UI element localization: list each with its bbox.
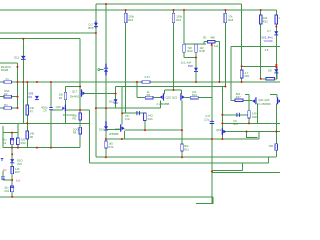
resistor R14 bbox=[144, 113, 147, 121]
wire Q18 emitter bbox=[124, 131, 126, 139]
wire R1 left stub bbox=[204, 42, 208, 45]
wire y171 bbox=[212, 163, 242, 170]
svg-text:3V9: 3V9 bbox=[28, 92, 33, 96]
resistor R25 bbox=[275, 15, 278, 24]
wire col x144 R14 bbox=[144, 120, 146, 130]
svg-text:0.47: 0.47 bbox=[145, 75, 151, 79]
wire output y172 bbox=[212, 171, 280, 173]
resistor R15 bbox=[124, 13, 127, 22]
svg-text:3V9: 3V9 bbox=[17, 162, 22, 166]
wire Q23 stub bbox=[276, 95, 278, 98]
svg-text:Jn1: Jn1 bbox=[16, 178, 21, 182]
node x12 y154 bbox=[11, 153, 13, 155]
wire y132 bbox=[3, 132, 18, 134]
node x105 y157 bbox=[105, 156, 107, 158]
transistor Q22 bbox=[180, 93, 181, 100]
svg-text:150: 150 bbox=[269, 144, 274, 148]
wire Q21 emitter bbox=[257, 104, 259, 124]
wire stub y137 bbox=[247, 132, 258, 138]
capacitor C8 bbox=[137, 111, 140, 115]
svg-text:4k8: 4k8 bbox=[210, 36, 215, 40]
wire y139 bbox=[106, 138, 259, 140]
wire y114 C6 bbox=[222, 114, 248, 116]
resistor R19b bbox=[195, 44, 198, 52]
svg-text:D9: D9 bbox=[28, 95, 32, 99]
y147 nodes bbox=[11, 147, 13, 149]
wire col x89 bbox=[88, 110, 90, 163]
node x196 y57 bbox=[195, 57, 197, 59]
node x222 y139 bbox=[221, 138, 223, 140]
svg-text:D13: D13 bbox=[99, 128, 104, 132]
svg-text:R15: R15 bbox=[128, 18, 133, 22]
resistor R26 bbox=[142, 81, 150, 84]
wire AC col bbox=[2, 126, 4, 180]
diode D11 bbox=[95, 21, 97, 28]
svg-text:2N44O4: 2N44O4 bbox=[1, 65, 12, 69]
svg-text:R20: R20 bbox=[252, 115, 257, 119]
resistor R27 bbox=[266, 78, 275, 81]
svg-text:220: 220 bbox=[21, 138, 26, 142]
wire D13 to Q18 base bbox=[106, 129, 120, 131]
svg-text:4.8: 4.8 bbox=[265, 48, 269, 52]
wire col x219 input bbox=[219, 42, 221, 82]
resistor R24 bbox=[275, 144, 278, 150]
svg-text:100: 100 bbox=[263, 16, 268, 20]
wire y130 bbox=[125, 129, 182, 131]
wire input y41 bbox=[215, 41, 220, 43]
diode D19 bbox=[194, 68, 198, 71]
svg-text:R17: R17 bbox=[236, 95, 241, 99]
svg-text:(2 x BD846: (2 x BD846 bbox=[257, 102, 271, 106]
svg-text:2x1_4uF: 2x1_4uF bbox=[181, 60, 192, 64]
capacitor C17 bbox=[210, 121, 215, 123]
wire y113 C8 bbox=[122, 112, 145, 114]
resistor R8 bbox=[79, 127, 82, 134]
svg-text:C9: C9 bbox=[43, 109, 47, 113]
wire y97 R9 bbox=[137, 97, 160, 99]
wire col x196 bbox=[195, 44, 197, 82]
wire y97 R13 bbox=[185, 97, 212, 99]
resistor R2 bbox=[4, 95, 12, 98]
wire y78 zener return bbox=[261, 66, 277, 79]
node x95 y33 bbox=[95, 32, 97, 34]
node x222 y114 bbox=[221, 114, 223, 116]
wire col x125 bbox=[125, 10, 127, 113]
svg-text:Jn2: Jn2 bbox=[214, 44, 219, 48]
wire rail y10 bbox=[0, 9, 276, 11]
wire col x65 R4 bbox=[64, 87, 66, 124]
node x211 y171 bbox=[211, 171, 213, 173]
wire col x50 bbox=[50, 82, 52, 148]
node x173 y90 bbox=[173, 89, 175, 91]
svg-text:Q2O Q22: Q2O Q22 bbox=[166, 96, 178, 100]
node x144 y130 bbox=[144, 129, 146, 131]
node x121 y139 bbox=[121, 138, 123, 140]
node x95 y108 bbox=[95, 107, 97, 109]
wire y123 right bbox=[222, 122, 280, 124]
svg-text:R1: R1 bbox=[203, 36, 207, 40]
wire y162 bbox=[89, 157, 268, 163]
node x106 y4 bbox=[105, 3, 107, 5]
wire y131 output bbox=[226, 131, 280, 133]
wire y57 bbox=[184, 57, 196, 59]
svg-text:R7: R7 bbox=[30, 109, 34, 113]
svg-text:R5: R5 bbox=[73, 117, 77, 121]
resistor R18 bbox=[224, 13, 227, 22]
node x12 y180 bbox=[11, 179, 13, 181]
diode D20 bbox=[274, 31, 278, 34]
diode D8 bbox=[274, 69, 278, 72]
svg-text:R2: R2 bbox=[4, 92, 8, 96]
node x249 y123 bbox=[248, 122, 250, 124]
node x260 y10 bbox=[260, 9, 262, 11]
svg-text:1On: 1On bbox=[125, 117, 131, 121]
svg-text:R3: R3 bbox=[4, 103, 8, 107]
wire Q20 collector bbox=[164, 90, 166, 94]
node x17 y96 bbox=[17, 96, 19, 98]
svg-text:2N4401: 2N4401 bbox=[70, 95, 80, 99]
wire col x276 upper bbox=[275, 10, 277, 79]
wire y108 row bbox=[0, 107, 18, 109]
node x260 y78 bbox=[260, 78, 262, 80]
node x241 y66 bbox=[241, 65, 243, 67]
wire input y44 bbox=[184, 43, 206, 45]
diode D9 bbox=[35, 96, 39, 99]
svg-text:Q21 Q23: Q21 Q23 bbox=[259, 98, 270, 102]
svg-text:10u: 10u bbox=[4, 185, 9, 189]
svg-text:AC: AC bbox=[3, 168, 7, 172]
wire col x27 bbox=[26, 82, 28, 148]
node x225 y10 bbox=[224, 9, 226, 11]
wire col x106 bbox=[105, 4, 107, 157]
node x27 y123 bbox=[26, 122, 28, 124]
svg-text:4.7: 4.7 bbox=[245, 71, 249, 75]
svg-text:R18: R18 bbox=[228, 18, 233, 22]
svg-text:140: 140 bbox=[252, 111, 257, 115]
node x222 y123 bbox=[221, 122, 223, 124]
node x12 y196 bbox=[11, 196, 13, 198]
svg-text:R11: R11 bbox=[184, 148, 189, 152]
svg-text:24k: 24k bbox=[30, 106, 35, 110]
node x184 y10 bbox=[183, 9, 185, 11]
svg-text:C8: C8 bbox=[125, 114, 129, 118]
svg-text:RO2B: RO2B bbox=[1, 68, 9, 72]
resistor R22 bbox=[259, 15, 262, 24]
resistor R7 bbox=[26, 105, 29, 115]
svg-text:Q16: Q16 bbox=[56, 105, 62, 109]
svg-text:Q17: Q17 bbox=[72, 90, 78, 94]
resistor R19a bbox=[183, 44, 186, 52]
capacitor C10 bbox=[11, 186, 14, 192]
node x11 y132 bbox=[11, 132, 13, 134]
diode D14 bbox=[98, 69, 100, 71]
wire col x95 bbox=[95, 4, 97, 157]
capacitor C9 bbox=[49, 108, 53, 110]
resistor R16 bbox=[172, 13, 175, 22]
wire mid rail y82 bbox=[0, 81, 280, 83]
wire col x241 R21 bbox=[241, 4, 243, 82]
transistor Q19 bbox=[222, 128, 223, 135]
resistor R1 input bbox=[208, 41, 215, 44]
wire y123 left bbox=[0, 122, 89, 124]
svg-text:BV8: BV8 bbox=[88, 26, 94, 30]
diode D10 bbox=[10, 159, 14, 162]
svg-text:120k: 120k bbox=[128, 15, 134, 19]
diode D15 bbox=[114, 99, 118, 102]
svg-text:2 x BD88B: 2 x BD88B bbox=[157, 102, 170, 106]
resistor R5 bbox=[79, 113, 82, 120]
wire col x23 D12 bbox=[22, 39, 24, 124]
resistor R20 bbox=[248, 111, 251, 118]
svg-text:D8: D8 bbox=[268, 68, 272, 72]
wire col x222 bbox=[221, 87, 223, 140]
node x246 y131 bbox=[246, 131, 248, 133]
rail y82 nodes bbox=[17, 81, 19, 83]
diode D12 bbox=[21, 56, 26, 59]
wire col x173 R16 bbox=[173, 10, 175, 90]
resistor R23 bbox=[11, 167, 14, 174]
wire col x225 R18 bbox=[224, 10, 226, 87]
wire col x184 bbox=[183, 10, 185, 58]
svg-text:140: 140 bbox=[30, 132, 35, 136]
node x173 y10 bbox=[173, 9, 175, 11]
svg-text:Q19: Q19 bbox=[216, 128, 222, 132]
svg-text:R12: R12 bbox=[108, 145, 113, 149]
svg-text:R13: R13 bbox=[192, 93, 197, 97]
wire y147 bbox=[3, 147, 80, 149]
svg-text:120k: 120k bbox=[176, 15, 182, 19]
transistor Q17 bbox=[81, 89, 82, 96]
node x17 y66 bbox=[16, 66, 18, 68]
wire link x258 bbox=[258, 132, 260, 140]
resistor R11 bbox=[181, 144, 184, 151]
svg-text:R9: R9 bbox=[147, 93, 151, 97]
svg-text:8k2: 8k2 bbox=[184, 144, 189, 148]
wire y90 collectors Q20 Q22 bbox=[165, 89, 182, 91]
wire col x17 R10 bbox=[17, 123, 19, 147]
svg-text:F1: F1 bbox=[6, 77, 10, 81]
transistor Q18 bbox=[120, 124, 121, 131]
resistor R10 bbox=[17, 138, 20, 145]
resistor R9 bbox=[145, 96, 153, 99]
wire col x230 bbox=[230, 46, 232, 100]
resistor R3 bbox=[4, 107, 12, 110]
node x106 y108 bbox=[105, 107, 107, 109]
node x105 y139 bbox=[105, 138, 107, 140]
resistor R6 bbox=[26, 131, 29, 139]
wire col x211 bbox=[211, 43, 213, 204]
node input bbox=[211, 44, 213, 46]
wire y86 left bbox=[65, 86, 80, 88]
svg-text:2N5088: 2N5088 bbox=[109, 132, 119, 136]
wire Q18 collector bbox=[121, 87, 123, 125]
wire col x136 bbox=[136, 82, 138, 98]
node y38 bbox=[22, 38, 24, 40]
node x125 y10 bbox=[125, 9, 127, 11]
node zener mark bbox=[276, 64, 278, 68]
svg-text:R27: R27 bbox=[15, 170, 20, 174]
wire col x276 lower bbox=[275, 104, 277, 158]
svg-text:3.7: 3.7 bbox=[267, 29, 271, 33]
svg-text:8V8: 8V8 bbox=[188, 64, 193, 68]
node x276 y131 bbox=[275, 131, 277, 133]
wire Q16 base bbox=[51, 109, 62, 111]
svg-text:R22: R22 bbox=[263, 19, 268, 23]
capacitor C11 AC input bbox=[1, 177, 5, 179]
wire y86 right bbox=[116, 86, 226, 88]
resistor R12 bbox=[105, 141, 108, 148]
transistor Q21 bbox=[255, 97, 256, 104]
resistor R4 bbox=[64, 92, 67, 99]
transistor Q23 bbox=[277, 97, 278, 104]
wire y64 bbox=[0, 62, 17, 64]
wire y66 bbox=[242, 65, 277, 67]
svg-text:R1B: R1B bbox=[199, 49, 204, 53]
wire y96 row bbox=[0, 96, 18, 98]
net marks bbox=[1, 158, 3, 160]
node x276 y26 bbox=[275, 26, 277, 28]
wire col x17 upper bbox=[17, 63, 19, 108]
node x225 y86 bbox=[224, 86, 226, 88]
wire top rail y4 bbox=[96, 3, 242, 5]
resistor R17 bbox=[235, 99, 243, 102]
svg-text:D15: D15 bbox=[109, 100, 114, 104]
node x182 y157 bbox=[181, 156, 183, 158]
svg-text:R21: R21 bbox=[245, 74, 250, 78]
transistor Q20 bbox=[163, 93, 164, 100]
svg-text:R14: R14 bbox=[148, 117, 153, 121]
node x182 y130 bbox=[181, 129, 183, 131]
wire col x12 bbox=[11, 133, 13, 197]
svg-text:D12: D12 bbox=[14, 55, 19, 59]
wire y46 bbox=[231, 45, 280, 47]
node x80 y86 bbox=[79, 86, 81, 88]
wire y180 bbox=[3, 179, 12, 181]
svg-text:C17: C17 bbox=[205, 114, 210, 118]
svg-text:17k: 17k bbox=[228, 15, 233, 19]
wire col x80 bbox=[79, 39, 81, 148]
svg-text:R4: R4 bbox=[59, 96, 63, 100]
svg-text:C6: C6 bbox=[233, 119, 237, 123]
svg-text:1k: 1k bbox=[278, 16, 280, 20]
capacitor C4 bbox=[11, 138, 14, 144]
wire y157 bbox=[96, 156, 276, 158]
wire y33 bbox=[0, 32, 96, 34]
wire Q20 emitter bbox=[159, 101, 161, 109]
diode D13 bbox=[105, 121, 107, 126]
wire bottom rail bbox=[0, 196, 213, 198]
svg-text:R2A: R2A bbox=[187, 49, 192, 53]
wire col x260 bbox=[260, 10, 262, 79]
resistor R13 bbox=[190, 96, 198, 99]
svg-text:Y2 D20: Y2 D20 bbox=[264, 39, 273, 43]
node x122 y113 bbox=[121, 112, 123, 114]
wire y39 bbox=[0, 38, 80, 40]
wire Q23 collector stub bbox=[270, 94, 277, 96]
svg-text:R16: R16 bbox=[176, 18, 181, 22]
fuse F1 bbox=[4, 81, 12, 84]
svg-text:C4: C4 bbox=[3, 141, 7, 145]
svg-text:Q18: Q18 bbox=[115, 127, 121, 131]
node x17 y108 bbox=[17, 107, 19, 109]
svg-text:1k5: 1k5 bbox=[108, 141, 113, 145]
node x211 y139 bbox=[211, 138, 213, 140]
resistor R21 bbox=[240, 70, 243, 78]
node x115 y93 bbox=[115, 93, 117, 95]
wire Q22 emitter bbox=[181, 101, 183, 158]
wire col x249 R20 bbox=[248, 95, 250, 124]
wire col x115 bbox=[115, 87, 117, 109]
capacitor C6 bbox=[237, 113, 240, 117]
wire Q22 collector bbox=[180, 90, 182, 94]
svg-text:R6: R6 bbox=[30, 135, 34, 139]
wire y108 bbox=[96, 107, 160, 109]
wire Q17 base y93 bbox=[85, 92, 116, 94]
transistor Q16 bbox=[65, 105, 66, 112]
svg-text:3n6: 3n6 bbox=[233, 122, 238, 126]
wire y110 bbox=[66, 109, 89, 111]
wire bottom corner bbox=[196, 197, 213, 204]
node x80 y110 bbox=[79, 109, 81, 111]
svg-text:R10: R10 bbox=[21, 141, 26, 145]
svg-text:10u: 10u bbox=[2, 138, 7, 142]
svg-text:R8: R8 bbox=[73, 131, 77, 135]
svg-text:C10: C10 bbox=[4, 189, 9, 193]
wire Q21 collector stub bbox=[245, 94, 249, 96]
wire y100 R17 bbox=[231, 99, 253, 101]
